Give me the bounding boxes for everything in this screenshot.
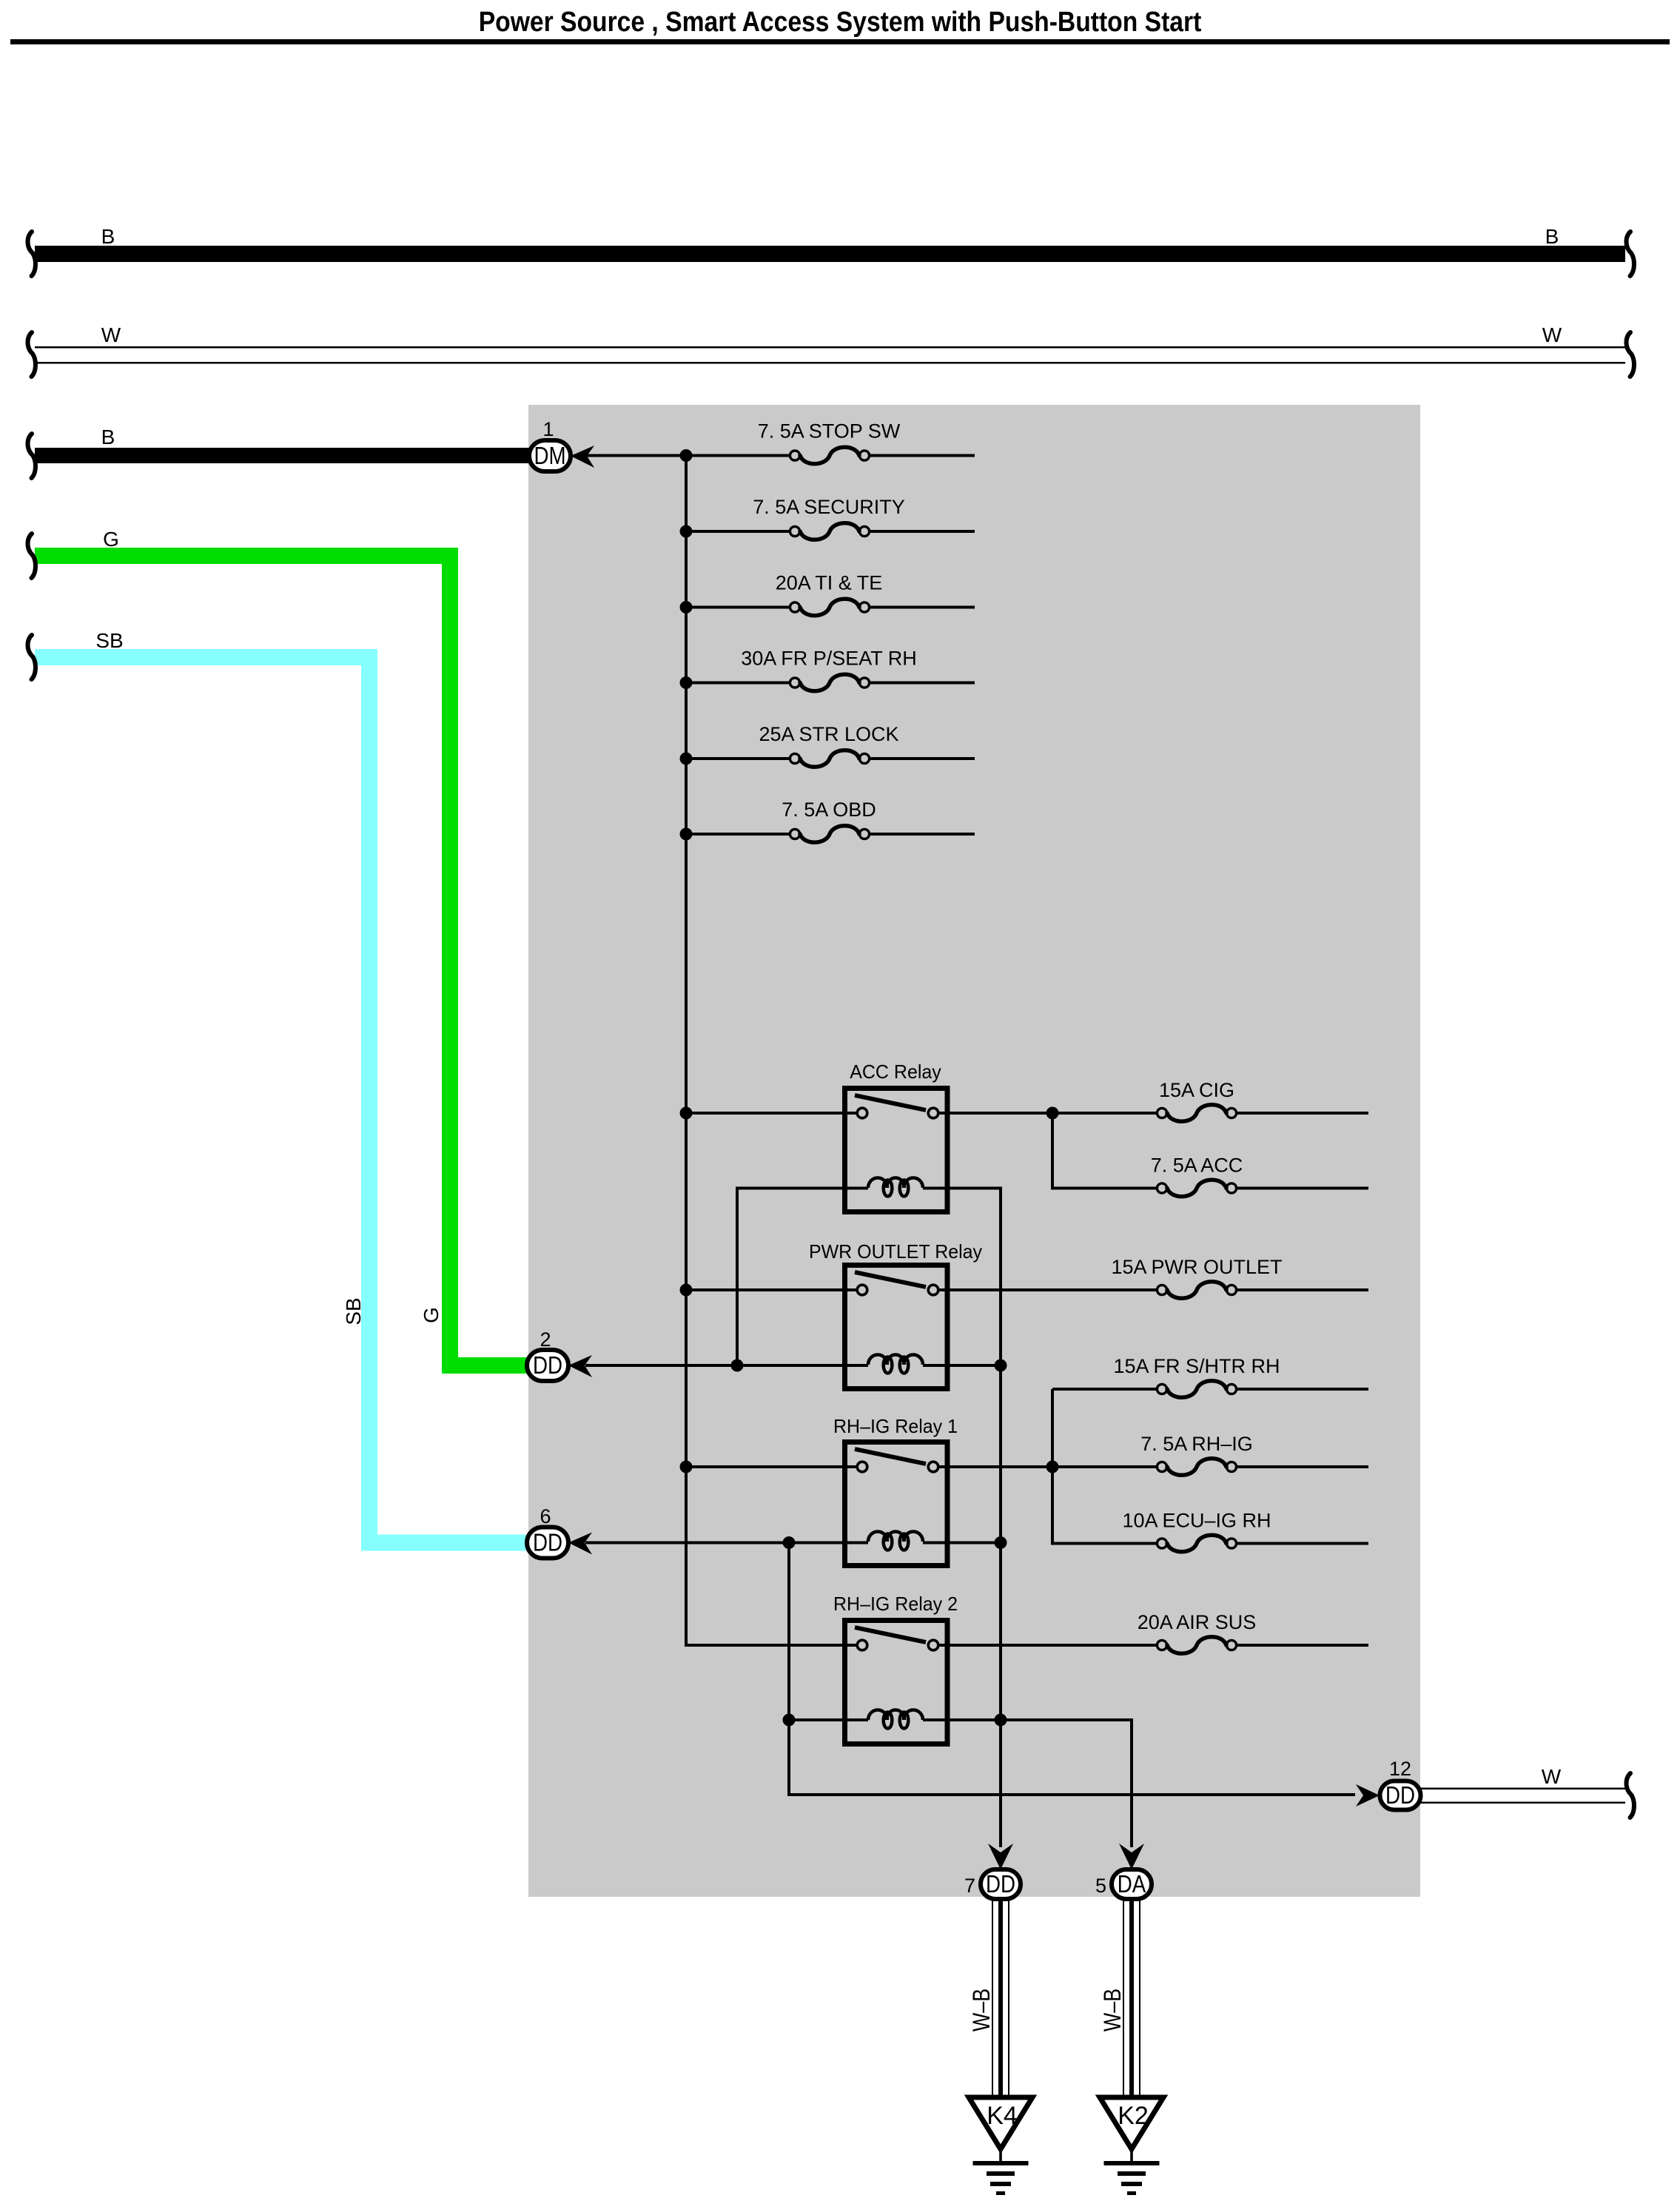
svg-text:7. 5A SECURITY: 7. 5A SECURITY	[753, 496, 905, 518]
svg-text:7. 5A STOP SW: 7. 5A STOP SW	[758, 420, 901, 443]
svg-text:7: 7	[964, 1875, 975, 1897]
svg-text:RH–IG Relay 2: RH–IG Relay 2	[833, 1594, 958, 1615]
svg-text:DD: DD	[533, 1352, 562, 1379]
svg-text:B: B	[101, 225, 115, 248]
svg-text:6: 6	[540, 1505, 551, 1527]
svg-text:5: 5	[1095, 1875, 1106, 1897]
svg-text:15A FR S/HTR RH: 15A FR S/HTR RH	[1113, 1355, 1280, 1377]
svg-text:7. 5A OBD: 7. 5A OBD	[782, 799, 876, 821]
svg-text:20A AIR SUS: 20A AIR SUS	[1138, 1611, 1257, 1633]
svg-text:DD: DD	[1385, 1782, 1415, 1809]
svg-text:K2: K2	[1118, 2102, 1149, 2130]
svg-text:W: W	[1542, 1765, 1562, 1788]
svg-text:W–B: W–B	[969, 1989, 995, 2031]
svg-text:G: G	[103, 528, 119, 551]
svg-text:W: W	[101, 323, 121, 346]
svg-text:G: G	[420, 1307, 443, 1323]
svg-text:SB: SB	[95, 629, 123, 652]
svg-text:W–B: W–B	[1100, 1989, 1126, 2031]
svg-text:ACC Relay: ACC Relay	[850, 1062, 941, 1083]
svg-text:B: B	[101, 426, 115, 448]
svg-text:DA: DA	[1118, 1871, 1146, 1898]
svg-text:K4: K4	[987, 2102, 1018, 2130]
svg-text:PWR OUTLET Relay: PWR OUTLET Relay	[809, 1242, 982, 1263]
svg-text:7. 5A RH–IG: 7. 5A RH–IG	[1140, 1433, 1253, 1455]
svg-text:SB: SB	[342, 1297, 365, 1325]
svg-text:10A ECU–IG RH: 10A ECU–IG RH	[1122, 1510, 1271, 1532]
svg-text:W: W	[1542, 323, 1562, 346]
svg-text:Power Source , Smart Access Sy: Power Source , Smart Access System with …	[479, 6, 1202, 37]
svg-text:1: 1	[542, 418, 554, 440]
svg-text:RH–IG Relay 1: RH–IG Relay 1	[833, 1416, 958, 1437]
svg-text:25A STR LOCK: 25A STR LOCK	[759, 723, 898, 745]
svg-text:DM: DM	[534, 443, 565, 470]
svg-text:30A FR P/SEAT RH: 30A FR P/SEAT RH	[741, 648, 917, 670]
svg-text:2: 2	[540, 1328, 551, 1351]
svg-text:B: B	[1545, 225, 1559, 248]
svg-text:15A CIG: 15A CIG	[1159, 1079, 1234, 1101]
svg-text:DD: DD	[533, 1529, 562, 1556]
svg-text:20A TI & TE: 20A TI & TE	[776, 572, 883, 594]
svg-text:15A PWR OUTLET: 15A PWR OUTLET	[1111, 1256, 1282, 1278]
svg-text:DD: DD	[986, 1871, 1015, 1898]
svg-text:12: 12	[1389, 1758, 1411, 1780]
svg-text:7. 5A ACC: 7. 5A ACC	[1151, 1155, 1243, 1177]
